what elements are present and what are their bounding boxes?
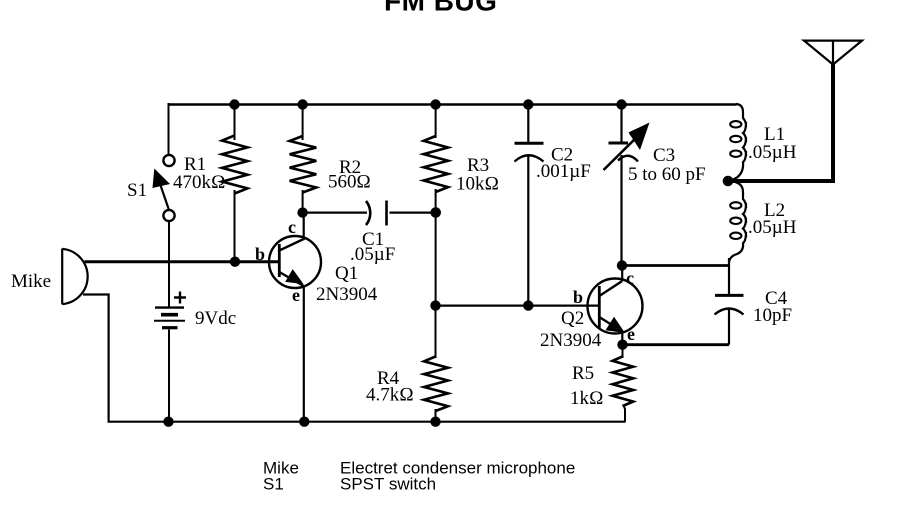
label L2: [764, 200, 785, 221]
node top rail C2 junction: [523, 99, 533, 109]
switch S1: [153, 155, 175, 221]
svg-text:560Ω: 560Ω: [328, 172, 371, 193]
resistor R5: [613, 345, 634, 422]
node bottom rail battery junction: [163, 417, 173, 427]
label Q1 pin c: [288, 217, 296, 237]
wire Q2 emitter to C4: [623, 343, 730, 346]
resistor R2: [290, 104, 317, 213]
svg-text:Q2: Q2: [561, 308, 584, 329]
svg-text:Q1: Q1: [335, 263, 358, 284]
wire battery bottom lead: [168, 330, 170, 422]
node top rail R1 junction: [229, 99, 239, 109]
svg-text:c: c: [288, 217, 296, 237]
svg-text:FM BUG: FM BUG: [384, 0, 497, 17]
label S1: [127, 180, 147, 201]
svg-text:2N3904: 2N3904: [316, 284, 378, 305]
wire C1 right: [390, 212, 436, 214]
label C2: [551, 145, 573, 166]
label R1 value 470k&#8486;: [173, 172, 226, 193]
label R5 value 1k&#8486;: [570, 388, 604, 409]
svg-text:470kΩ: 470kΩ: [173, 172, 226, 193]
node Q2 emitter R5 junction: [617, 340, 627, 350]
transistor Q1: [269, 236, 321, 288]
svg-text:2N3904: 2N3904: [540, 330, 602, 351]
wire Q2 collector to tank node: [622, 264, 730, 267]
wire battery top lead: [168, 221, 170, 307]
node C1 R3 junction: [430, 207, 441, 218]
svg-text:c: c: [626, 268, 634, 288]
wire bottom rail: [108, 421, 626, 423]
svg-text:b: b: [573, 287, 583, 307]
label Q1 pin b: [255, 244, 265, 264]
legend Mike: [263, 459, 299, 478]
label C1: [362, 229, 384, 250]
svg-text:e: e: [292, 285, 300, 305]
capacitor C2: [515, 104, 544, 306]
label C1 value .05&#181;F: [350, 244, 395, 265]
svg-text:9Vdc: 9Vdc: [195, 308, 236, 329]
wire Q1 emitter lead: [303, 286, 305, 422]
svg-text:R5: R5: [572, 363, 594, 384]
svg-text:C3: C3: [653, 145, 675, 166]
wire mid rail: [436, 305, 600, 307]
transistor Q2: [588, 279, 643, 334]
node top rail R3 junction: [430, 99, 440, 109]
label R2: [339, 157, 361, 178]
battery plus sign: [174, 292, 186, 304]
legend Electret condenser microphone: [340, 459, 575, 478]
svg-text:b: b: [255, 244, 265, 264]
battery B1 9Vdc: [154, 308, 185, 328]
microphone Mike: [62, 249, 87, 305]
node bottom rail Q1 emitter junction: [299, 417, 309, 427]
svg-text:1kΩ: 1kΩ: [570, 388, 604, 409]
svg-text:10pF: 10pF: [753, 305, 792, 326]
label L2 value .05&#181;H: [748, 217, 797, 238]
capacitor C4: [715, 295, 744, 344]
label Q2 pin c: [626, 268, 634, 288]
label Q1: [335, 263, 358, 284]
node C3 Q2 collector junction: [617, 260, 627, 270]
label Q2 pin b: [573, 287, 583, 307]
legend S1: [263, 475, 284, 494]
node Q1 base R1 junction: [230, 257, 240, 267]
label C3 value 5 to 60 pF: [628, 164, 706, 185]
node top rail C3 junction: [616, 99, 626, 109]
label R4: [377, 368, 400, 389]
label Q2: [561, 308, 584, 329]
node bottom rail R4 junction: [430, 417, 440, 427]
wire L2 to C4: [728, 258, 730, 296]
node L1 L2 antenna junction: [723, 176, 734, 187]
svg-text:.05µH: .05µH: [748, 217, 797, 238]
label Q1 pin e: [292, 285, 300, 305]
resistor R1: [222, 104, 248, 262]
svg-text:.05µH: .05µH: [748, 142, 797, 163]
node C2 mid rail junction: [523, 300, 533, 310]
label R3: [467, 155, 489, 176]
wire top rail: [169, 103, 737, 105]
inductor L2: [729, 181, 746, 262]
title FM BUG: [384, 0, 497, 17]
wire mike bottom lead: [83, 295, 109, 422]
label R1: [184, 154, 206, 175]
resistor R3: [424, 104, 449, 306]
label R3 value 10k&#8486;: [456, 174, 499, 195]
label L1: [764, 124, 785, 145]
node R2 C1 Q1 collector junction: [297, 207, 307, 217]
resistor R4: [424, 306, 448, 422]
node top rail R2 junction: [297, 99, 307, 109]
label L1 value .05&#181;H: [748, 142, 797, 163]
capacitor C1: [366, 201, 387, 226]
node R3 R4 mid rail junction: [430, 300, 440, 310]
svg-text:4.7kΩ: 4.7kΩ: [366, 385, 414, 406]
label C4 value 10pF: [753, 305, 792, 326]
svg-text:SPST switch: SPST switch: [340, 475, 436, 494]
label C3: [653, 145, 675, 166]
label Mike: [11, 271, 51, 292]
svg-text:S1: S1: [127, 180, 147, 201]
wire mike to Q1 base: [85, 260, 280, 263]
wire C1 left: [303, 212, 367, 214]
inductor L1: [730, 104, 746, 181]
capacitor C3 variable: [604, 104, 650, 266]
antenna: [804, 41, 862, 65]
label Q2 pin e: [627, 324, 635, 344]
label C4: [765, 288, 788, 309]
svg-text:Mike: Mike: [11, 271, 51, 292]
svg-text:.05µF: .05µF: [350, 244, 395, 265]
wire antenna feed: [728, 63, 833, 183]
svg-text:5 to 60 pF: 5 to 60 pF: [628, 164, 706, 185]
label R2 value 560&#937;: [328, 172, 371, 193]
label R5: [572, 363, 594, 384]
wire Q2 emitter lead: [621, 331, 623, 345]
label 9Vdc value: [195, 308, 236, 329]
svg-text:e: e: [627, 324, 635, 344]
svg-text:S1: S1: [263, 475, 284, 494]
label R4 value 4.7k&#8486;: [366, 385, 414, 406]
wire S1 upper lead: [168, 103, 170, 154]
wire Q1 collector lead: [303, 213, 305, 240]
svg-text:.001µF: .001µF: [536, 161, 591, 182]
legend SPST switch: [340, 475, 436, 494]
wire Q2 collector lead: [621, 266, 623, 282]
label C2 value .001&#181;F: [536, 161, 591, 182]
svg-text:10kΩ: 10kΩ: [456, 174, 499, 195]
label Q1 value 2N3904: [316, 284, 378, 305]
label Q2 value 2N3904: [540, 330, 602, 351]
